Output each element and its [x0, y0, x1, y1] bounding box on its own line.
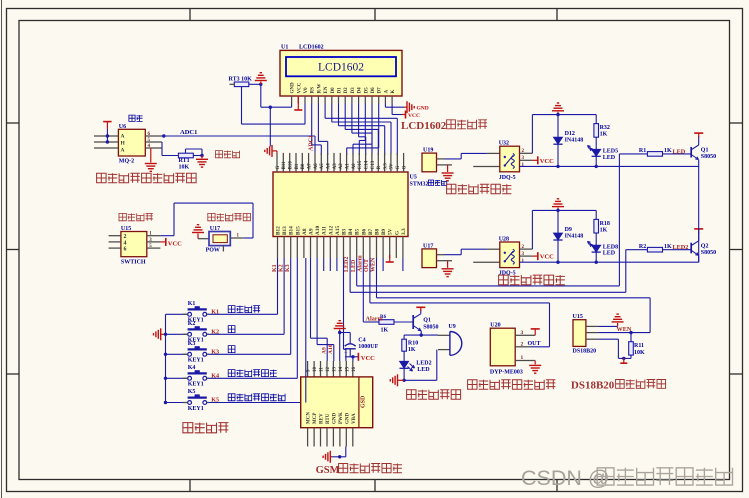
svg-text:B8: B8 — [375, 228, 381, 235]
svg-text:D2: D2 — [344, 87, 349, 94]
svg-text:A3: A3 — [333, 163, 338, 170]
svg-text:LCD1602: LCD1602 — [299, 45, 324, 51]
svg-text:10K: 10K — [179, 165, 190, 171]
svg-text:VCC: VCC — [540, 254, 554, 261]
svg-text:C13: C13 — [371, 160, 376, 169]
svg-text:GND: GND — [345, 413, 350, 425]
svg-text:G: G — [402, 166, 407, 170]
svg-text:A6: A6 — [314, 163, 319, 170]
svg-text:2: 2 — [521, 341, 524, 347]
svg-text:A5: A5 — [320, 163, 325, 170]
svg-text:VCC: VCC — [408, 113, 420, 119]
svg-text:KEY1: KEY1 — [188, 358, 204, 364]
svg-text:K4: K4 — [211, 372, 219, 379]
svg-text:OUT: OUT — [528, 341, 541, 347]
svg-text:A1: A1 — [345, 163, 350, 170]
svg-text:GND: GND — [332, 413, 337, 425]
svg-text:KEY1: KEY1 — [188, 382, 204, 388]
svg-text:U1: U1 — [281, 45, 288, 51]
svg-text:U15: U15 — [121, 226, 131, 232]
svg-text:REV: REV — [320, 413, 325, 424]
svg-text:C14: C14 — [364, 160, 369, 169]
svg-text:GSM: GSM — [316, 465, 340, 476]
svg-text:B15: B15 — [295, 226, 301, 235]
svg-text:K1: K1 — [188, 301, 196, 307]
svg-text:3.3: 3.3 — [383, 163, 388, 170]
svg-text:POW: POW — [206, 248, 220, 254]
svg-text:4: 4 — [124, 240, 127, 246]
svg-text:A: A — [121, 134, 125, 140]
svg-text:R10: R10 — [408, 340, 418, 346]
svg-text:3: 3 — [521, 330, 524, 336]
svg-text:B14: B14 — [289, 226, 295, 235]
svg-text:H: H — [121, 141, 126, 147]
svg-text:D12: D12 — [565, 131, 575, 137]
svg-text:K: K — [391, 90, 396, 94]
svg-text:B5: B5 — [355, 228, 361, 235]
svg-text:13: 13 — [332, 367, 337, 373]
svg-text:11: 11 — [320, 367, 325, 372]
svg-text:RT3 10K: RT3 10K — [229, 77, 253, 83]
svg-text:GND: GND — [417, 106, 429, 112]
svg-text:V0: V0 — [304, 87, 309, 94]
svg-text:LED2: LED2 — [416, 361, 431, 367]
svg-text:+: + — [344, 350, 347, 356]
svg-text:K1: K1 — [211, 308, 219, 315]
svg-text:A4: A4 — [326, 163, 331, 170]
svg-text:D1: D1 — [338, 87, 343, 94]
svg-text:K2: K2 — [211, 328, 219, 335]
svg-text:G: G — [394, 231, 400, 235]
svg-text:K2: K2 — [278, 264, 284, 272]
svg-text:R/W: R/W — [317, 84, 322, 94]
svg-text:5V: 5V — [388, 228, 394, 235]
svg-text:B13: B13 — [282, 226, 288, 235]
svg-text:R11: R11 — [634, 343, 644, 349]
svg-text:WEN: WEN — [617, 326, 632, 333]
svg-text:10: 10 — [313, 367, 318, 373]
svg-text:1K: 1K — [600, 227, 608, 233]
svg-text:K1: K1 — [272, 264, 278, 272]
svg-text:Q1: Q1 — [701, 148, 709, 154]
svg-text:R1: R1 — [639, 148, 646, 154]
svg-text:ADC1: ADC1 — [180, 129, 197, 136]
svg-text:EN: EN — [324, 86, 329, 93]
svg-text:1K: 1K — [664, 244, 672, 250]
svg-text:1K: 1K — [408, 347, 416, 353]
svg-text:LED: LED — [417, 367, 430, 373]
svg-text:1: 1 — [521, 355, 524, 361]
svg-text:U15: U15 — [573, 314, 583, 320]
svg-text:U20: U20 — [490, 323, 500, 329]
svg-text:GSD: GSD — [361, 395, 367, 408]
svg-text:U17: U17 — [423, 243, 433, 249]
svg-text:B6: B6 — [361, 228, 367, 235]
svg-text:1K: 1K — [600, 132, 608, 138]
svg-text:16: 16 — [352, 367, 357, 373]
svg-text:1K: 1K — [381, 328, 389, 334]
svg-text:DS18B20: DS18B20 — [571, 380, 615, 392]
svg-text:D0: D0 — [331, 87, 336, 94]
svg-text:B1: B1 — [295, 163, 300, 169]
svg-text:A9: A9 — [309, 228, 315, 235]
svg-text:LED5: LED5 — [603, 149, 618, 155]
svg-text:VCC: VCC — [168, 240, 182, 247]
svg-text:A10: A10 — [315, 226, 321, 235]
svg-text:LED: LED — [673, 148, 686, 155]
svg-text:14: 14 — [339, 367, 344, 373]
svg-text:CSDN @: CSDN @ — [521, 466, 610, 490]
svg-text:STM32: STM32 — [410, 182, 429, 188]
svg-text:R32: R32 — [600, 125, 610, 131]
svg-text:VCC: VCC — [361, 355, 375, 362]
svg-text:Alarm: Alarm — [358, 255, 364, 272]
svg-text:A9: A9 — [322, 347, 328, 354]
svg-text:DS18B20: DS18B20 — [573, 349, 597, 355]
svg-text:DYP-ME003: DYP-ME003 — [490, 370, 523, 376]
svg-text:S8050: S8050 — [701, 154, 716, 160]
svg-text:VCC: VCC — [540, 158, 554, 165]
svg-text:1K: 1K — [664, 148, 672, 154]
svg-text:S8050: S8050 — [701, 250, 716, 256]
svg-text:LCD1602: LCD1602 — [318, 62, 364, 74]
svg-text:10K: 10K — [634, 350, 645, 356]
svg-text:ADC1: ADC1 — [309, 135, 315, 151]
svg-text:A12: A12 — [328, 226, 334, 235]
svg-text:LCD1602: LCD1602 — [401, 120, 447, 132]
svg-text:B9: B9 — [381, 228, 387, 235]
svg-text:GND: GND — [291, 82, 296, 94]
svg-text:5V: 5V — [390, 163, 395, 170]
svg-text:U5: U5 — [410, 175, 417, 181]
svg-text:A2: A2 — [339, 163, 344, 170]
svg-text:U32: U32 — [499, 141, 509, 147]
svg-text:B7: B7 — [368, 228, 374, 235]
svg-text:LED2: LED2 — [673, 244, 689, 251]
svg-text:D7: D7 — [378, 87, 383, 94]
svg-text:K4: K4 — [188, 365, 196, 371]
svg-text:A: A — [121, 148, 125, 154]
svg-text:K3: K3 — [285, 264, 291, 272]
svg-text:6: 6 — [124, 247, 127, 253]
svg-text:R: R — [377, 166, 382, 170]
svg-text:RS: RS — [311, 87, 316, 94]
svg-text:U6: U6 — [119, 124, 126, 130]
svg-text:U28: U28 — [499, 237, 509, 243]
svg-text:RT1: RT1 — [179, 158, 190, 164]
svg-text:JDQ-5: JDQ-5 — [499, 271, 516, 277]
svg-text:D6: D6 — [371, 87, 376, 94]
svg-text:MCP: MCP — [313, 413, 318, 424]
svg-text:MCN: MCN — [307, 412, 312, 424]
svg-text:3.3: 3.3 — [401, 228, 407, 235]
svg-text:G: G — [276, 166, 281, 170]
svg-text:R18: R18 — [600, 221, 610, 227]
svg-text:A7: A7 — [307, 163, 312, 170]
svg-text:A15: A15 — [335, 226, 341, 235]
svg-text:B11: B11 — [282, 161, 287, 170]
svg-text:LED: LED — [603, 251, 616, 257]
svg-text:B0: B0 — [301, 163, 306, 169]
svg-text:D3: D3 — [351, 87, 356, 94]
svg-text:Alarm: Alarm — [366, 315, 384, 322]
svg-text:D4: D4 — [358, 87, 363, 94]
svg-text:LED2: LED2 — [344, 257, 350, 272]
svg-text:B10: B10 — [289, 161, 294, 170]
svg-text:B12: B12 — [276, 226, 282, 235]
svg-text:A0: A0 — [352, 163, 357, 170]
svg-text:12: 12 — [326, 367, 331, 373]
svg-text:JDQ-5: JDQ-5 — [499, 175, 516, 181]
svg-text:B4: B4 — [348, 228, 354, 235]
svg-text:C4: C4 — [358, 338, 365, 344]
svg-text:A8: A8 — [302, 228, 308, 235]
svg-text:KEY1: KEY1 — [188, 406, 204, 412]
svg-text:PWK: PWK — [339, 412, 344, 424]
svg-text:Q2: Q2 — [701, 243, 709, 249]
svg-text:WEN: WEN — [371, 257, 377, 272]
svg-text:K2: K2 — [188, 321, 196, 327]
svg-text:1000UF: 1000UF — [358, 344, 378, 350]
svg-text:U9: U9 — [448, 324, 455, 330]
svg-text:A11: A11 — [322, 226, 328, 235]
svg-text:S8050: S8050 — [423, 325, 438, 331]
svg-text:C15: C15 — [358, 160, 363, 169]
svg-text:LED: LED — [603, 155, 616, 161]
svg-text:IN4148: IN4148 — [565, 138, 584, 144]
svg-text:LED: LED — [351, 259, 357, 272]
svg-text:U19: U19 — [423, 148, 433, 154]
svg-text:K3: K3 — [211, 348, 219, 355]
svg-text:IN4148: IN4148 — [565, 234, 584, 240]
svg-text:SWTICH: SWTICH — [121, 260, 146, 266]
svg-text:K5: K5 — [211, 397, 219, 404]
svg-text:Q1: Q1 — [423, 318, 431, 324]
svg-text:G: G — [396, 166, 401, 170]
svg-text:RTU: RTU — [326, 413, 331, 424]
svg-text:OUT: OUT — [364, 259, 370, 272]
svg-text:A10: A10 — [328, 344, 334, 354]
svg-text:MQ-2: MQ-2 — [119, 159, 134, 165]
svg-text:D9: D9 — [565, 227, 572, 233]
svg-text:R2: R2 — [639, 244, 646, 250]
svg-text:K3: K3 — [188, 341, 196, 347]
svg-text:VBA: VBA — [352, 413, 357, 424]
svg-text:K5: K5 — [188, 389, 196, 395]
svg-text:15: 15 — [345, 367, 350, 373]
svg-text:D5: D5 — [364, 87, 369, 94]
svg-text:A: A — [384, 90, 389, 94]
svg-text:VCC: VCC — [297, 82, 302, 93]
svg-text:2: 2 — [124, 234, 127, 240]
svg-text:B3: B3 — [342, 228, 348, 235]
svg-text:LED8: LED8 — [603, 244, 618, 250]
